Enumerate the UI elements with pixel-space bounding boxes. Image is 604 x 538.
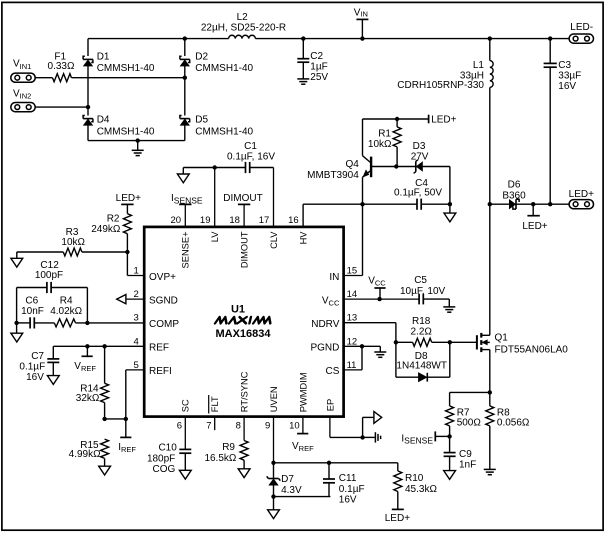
resistor R7 500 [446, 406, 482, 437]
svg-text:REFI: REFI [149, 366, 172, 377]
wire LED+ row [488, 202, 569, 206]
pin 7 label FLT [206, 395, 220, 432]
pin label LV [210, 231, 220, 242]
capacitor C5 10uF 10V [400, 275, 449, 307]
terminal VIN2 [11, 88, 35, 111]
svg-text:R10: R10 [405, 473, 424, 484]
pin 2 SGND [134, 289, 178, 306]
pin 11 CS [325, 360, 356, 377]
wire Q4 collector rail [363, 117, 429, 121]
pin label SENSE+ [181, 232, 191, 269]
svg-text:LED+: LED+ [385, 513, 410, 524]
svg-text:1N4148WT: 1N4148WT [396, 361, 447, 372]
svg-text:C2: C2 [310, 51, 323, 62]
svg-text:16.5kΩ: 16.5kΩ [204, 453, 236, 464]
pin label CLV [269, 231, 279, 249]
resistor R9 16.5k [204, 417, 248, 469]
svg-text:0.1µF, 50V: 0.1µF, 50V [394, 187, 442, 198]
resistor R18 2.2ohm [396, 316, 452, 346]
ground SGND pin2 [117, 295, 145, 304]
node LED+ flag over R2 [116, 193, 141, 205]
svg-text:LED-: LED- [570, 22, 593, 33]
svg-text:9: 9 [265, 421, 270, 432]
resistor R1 10k [368, 119, 401, 167]
pin 12 PGND [310, 336, 357, 353]
node IREF wire [102, 417, 128, 421]
pin 17 stub [259, 168, 274, 227]
ground C4 [444, 204, 456, 222]
svg-text:25V: 25V [310, 72, 328, 83]
svg-text:C3: C3 [558, 60, 571, 71]
wire bridge right column [184, 39, 186, 141]
fuse F1 0.33ohm [48, 51, 75, 81]
svg-text:CDRH105RNP-330: CDRH105RNP-330 [397, 80, 484, 91]
svg-text:6: 6 [177, 421, 182, 432]
svg-text:16: 16 [288, 215, 299, 226]
diode D2 CMMSH1-40 [180, 51, 254, 74]
svg-text:C7: C7 [31, 351, 44, 362]
ground C9 [444, 471, 456, 480]
node DIMOUT flag [223, 193, 262, 204]
svg-text:R9: R9 [222, 442, 235, 453]
svg-text:7: 7 [206, 421, 211, 432]
svg-text:32kΩ: 32kΩ [76, 393, 100, 404]
ground R15 [99, 466, 111, 475]
svg-text:500Ω: 500Ω [457, 418, 482, 429]
node junction dots on rail [183, 36, 553, 40]
svg-text:2.2Ω: 2.2Ω [411, 326, 433, 337]
svg-text:CMMSH1-40: CMMSH1-40 [195, 63, 253, 74]
svg-text:FDT55AN06LA0: FDT55AN06LA0 [495, 345, 569, 356]
wire UVEN pin9 [271, 417, 275, 465]
node ISENSE flag bottom [401, 431, 451, 445]
svg-text:LED+: LED+ [116, 193, 141, 204]
svg-text:Q4: Q4 [345, 159, 359, 170]
capacitor C3 [544, 39, 582, 205]
svg-text:C9: C9 [459, 449, 472, 460]
ground COMP [11, 323, 23, 342]
ground R8 [484, 469, 496, 474]
svg-text:R4: R4 [60, 296, 73, 307]
svg-text:20: 20 [171, 215, 182, 226]
svg-text:CMMSH1-40: CMMSH1-40 [195, 126, 253, 137]
svg-text:C6: C6 [25, 296, 38, 307]
pin 8 label RT/SYNC [236, 371, 250, 431]
ground C1 [177, 174, 189, 183]
svg-text:180pF: 180pF [147, 453, 175, 464]
ground C5 [443, 307, 455, 312]
svg-text:0.1µF, 16V: 0.1µF, 16V [227, 151, 275, 162]
inductor L1 [397, 39, 493, 205]
node LED+ flag under R10 [385, 509, 410, 524]
wire HV pin16 [303, 204, 362, 227]
pin EP label [325, 399, 335, 411]
ground EP side-bars [375, 432, 380, 442]
capacitor C10 180pF COG [147, 417, 191, 475]
svg-text:D4: D4 [97, 114, 110, 125]
svg-text:R1: R1 [378, 128, 391, 139]
svg-text:10nF: 10nF [21, 306, 44, 317]
wire top rail [88, 38, 569, 40]
svg-text:LV: LV [210, 231, 220, 242]
terminal LED+ [569, 189, 594, 209]
ground R3 [11, 258, 23, 267]
pin 15 IN [329, 266, 357, 283]
node VIN [354, 8, 369, 39]
wire PGND pin12 [344, 344, 381, 352]
pin 5 REFI [134, 360, 172, 377]
node VCC flag [368, 275, 386, 299]
svg-text:SC: SC [181, 399, 191, 412]
pin 3 COMP [134, 313, 180, 330]
svg-text:C11: C11 [339, 473, 357, 484]
svg-text:NDRV: NDRV [311, 319, 339, 330]
svg-text:17: 17 [259, 215, 270, 226]
ground PGND [374, 352, 386, 357]
svg-text:10kΩ: 10kΩ [61, 237, 85, 248]
svg-text:1nF: 1nF [459, 460, 476, 471]
pin 18 stub [229, 204, 244, 227]
svg-text:19: 19 [200, 215, 211, 226]
pin 19 stub [200, 168, 215, 227]
terminal LED- [569, 22, 593, 43]
capacitor C4 0.1uF 50V [363, 178, 450, 210]
capacitor C6 10nF [21, 296, 44, 329]
svg-text:16V: 16V [26, 372, 44, 383]
capacitor C7 0.1uF 16V [19, 346, 59, 383]
svg-text:SGND: SGND [149, 295, 178, 306]
svg-text:CS: CS [325, 366, 339, 377]
wire Q4 emitter [360, 177, 364, 206]
svg-text:PWMDIM: PWMDIM [298, 372, 308, 412]
node LED+ flag under D6 [522, 204, 547, 232]
resistor R15 4.99k [69, 439, 109, 466]
ground C2 [297, 79, 309, 84]
svg-text:0.1µF: 0.1µF [19, 362, 45, 373]
node IREF flag [118, 419, 136, 454]
svg-text:CMMSH1-40: CMMSH1-40 [97, 63, 155, 74]
wire bridge bottom [88, 138, 185, 142]
svg-text:OVP+: OVP+ [149, 272, 176, 283]
op-amp U1 MAX16834 body [144, 227, 343, 417]
ground R9 [238, 469, 250, 478]
svg-text:33µF: 33µF [558, 70, 581, 81]
node arrow out [374, 412, 382, 424]
inductor L2 [201, 12, 286, 38]
diode D6 B360 [502, 179, 526, 209]
pin 16 number [288, 215, 299, 226]
svg-text:SENSE+: SENSE+ [181, 232, 191, 269]
svg-text:U1: U1 [231, 303, 245, 315]
diode D1 CMMSH1-40 [83, 51, 155, 74]
pin label HV [298, 231, 308, 245]
pin 10 label PWMDIM [289, 372, 308, 431]
pin 13 NDRV [311, 313, 357, 330]
svg-text:22µH, SD25-220-R: 22µH, SD25-220-R [201, 22, 286, 33]
svg-text:COMP: COMP [149, 319, 179, 330]
svg-text:MAX16834: MAX16834 [215, 328, 271, 340]
capacitor C1 0.1uF 16V [227, 141, 275, 173]
resistor R4 4.02k [50, 296, 82, 327]
svg-text:10: 10 [289, 421, 300, 432]
svg-text:RT/SYNC: RT/SYNC [240, 371, 250, 412]
logo MAXIM [215, 317, 272, 323]
svg-text:0.056Ω: 0.056Ω [497, 418, 530, 429]
node LED+ flag top [429, 114, 457, 125]
svg-text:1µF: 1µF [310, 62, 327, 73]
svg-text:C1: C1 [244, 141, 257, 152]
capacitor C11 0.1uF 16V [323, 463, 365, 506]
resistor R14 32k [76, 346, 109, 419]
terminal VIN1 [11, 59, 35, 83]
wire CS pin11 [344, 346, 362, 370]
wire EP arrow riser [363, 417, 374, 437]
svg-text:45.3kΩ: 45.3kΩ [405, 484, 437, 495]
svg-text:FLT: FLT [210, 396, 220, 412]
svg-text:100pF: 100pF [35, 270, 63, 281]
svg-text:D1: D1 [97, 51, 110, 62]
svg-text:0.1µF: 0.1µF [339, 484, 365, 495]
svg-text:C5: C5 [414, 275, 427, 286]
svg-text:8: 8 [236, 421, 241, 432]
ground D7 [268, 510, 280, 519]
wire D7 bottom node [271, 494, 330, 509]
wire UVEN row [274, 461, 398, 465]
svg-text:D2: D2 [195, 51, 208, 62]
svg-text:D7: D7 [281, 474, 294, 485]
diode D4 CMMSH1-40 [83, 114, 155, 137]
wire COMP net [14, 321, 144, 325]
wire C1 net [183, 165, 273, 174]
svg-text:3: 3 [134, 313, 139, 324]
svg-text:C10: C10 [158, 443, 177, 454]
capacitor C2 [297, 39, 328, 84]
wire VIN1 row [35, 76, 187, 80]
wire base node [394, 164, 416, 168]
svg-text:4.99kΩ: 4.99kΩ [69, 449, 101, 460]
svg-text:D6: D6 [508, 179, 521, 190]
diode D8 1N4148WT [396, 342, 450, 381]
svg-text:HV: HV [298, 231, 308, 245]
svg-text:CLV: CLV [269, 231, 279, 249]
wire VCC pin14 [344, 297, 420, 301]
svg-text:LED+: LED+ [431, 114, 456, 125]
node VREF flag pin10 [292, 417, 314, 453]
resistor R8 0.056 [486, 392, 530, 469]
wire REF net [53, 344, 144, 348]
capacitor C9 1nF [444, 436, 477, 470]
svg-text:D3: D3 [413, 141, 426, 152]
resistor R3 10k [61, 227, 85, 256]
node ISENSE flag top [171, 193, 203, 205]
svg-text:EP: EP [325, 399, 335, 411]
node VREF flag pin4 [74, 346, 96, 373]
svg-text:L1: L1 [473, 60, 485, 71]
svg-text:16V: 16V [339, 495, 357, 506]
svg-text:10kΩ: 10kΩ [368, 139, 392, 150]
diode D3 27V zener [411, 141, 429, 173]
diode D7 4.3V zener [267, 463, 302, 497]
svg-text:MMBT3904: MMBT3904 [307, 170, 359, 181]
pin 9 label UVEN [265, 386, 279, 431]
transistor Q1 FDT55AN06LA0 [450, 204, 569, 392]
pin 14 VCC [322, 289, 357, 308]
pin 4 REF [134, 336, 169, 353]
wire EP [330, 417, 375, 440]
svg-text:IN: IN [329, 272, 339, 283]
wire D3 to C4 corner [422, 167, 452, 207]
wire REFI pin5 [126, 370, 144, 419]
svg-text:UVEN: UVEN [269, 386, 279, 412]
pin 7 no-connect stub [214, 417, 216, 431]
capacitor C12 100pF [17, 260, 88, 323]
resistor R10 45.3k [394, 463, 438, 510]
svg-text:16V: 16V [558, 81, 576, 92]
svg-text:COG: COG [153, 464, 176, 475]
ground C7 [47, 376, 59, 385]
wire bridge left column [87, 39, 89, 141]
svg-text:4.02kΩ: 4.02kΩ [50, 306, 82, 317]
svg-text:B360: B360 [502, 191, 526, 202]
svg-text:0.33Ω: 0.33Ω [48, 61, 75, 72]
svg-text:Q1: Q1 [495, 333, 509, 344]
diode D5 CMMSH1-40 [180, 114, 254, 137]
svg-text:CMMSH1-40: CMMSH1-40 [97, 126, 155, 137]
wire R3 left to ground [17, 252, 64, 258]
svg-text:27V: 27V [411, 152, 429, 163]
svg-text:D5: D5 [195, 114, 208, 125]
svg-text:4.3V: 4.3V [281, 485, 302, 496]
transistor Q4 MMBT3904 [307, 119, 396, 181]
svg-text:REF: REF [149, 343, 169, 354]
pin 20 stub [171, 204, 186, 227]
svg-text:ISENSE: ISENSE [401, 433, 433, 445]
svg-text:DIMOUT: DIMOUT [240, 231, 250, 268]
wire OVP node [82, 250, 144, 276]
resistor R2 249k [91, 204, 131, 252]
pin 6 label SC [177, 399, 191, 432]
svg-text:DIMOUT: DIMOUT [223, 193, 262, 204]
ground C10 [179, 470, 191, 479]
svg-text:VIN: VIN [354, 8, 368, 19]
svg-text:LED+: LED+ [569, 189, 594, 200]
wire IN pin15 [344, 204, 363, 275]
svg-text:249kΩ: 249kΩ [91, 224, 121, 235]
wire source node [450, 390, 492, 406]
wire VIN2 row [35, 105, 90, 109]
pin 1 OVP+ [134, 266, 177, 283]
ground bridge [132, 141, 144, 156]
svg-text:18: 18 [229, 215, 240, 226]
pin label DIMOUT [240, 231, 250, 268]
svg-text:PGND: PGND [310, 343, 339, 354]
wire NDRV pin13 [344, 323, 398, 345]
svg-text:LED+: LED+ [522, 221, 547, 232]
